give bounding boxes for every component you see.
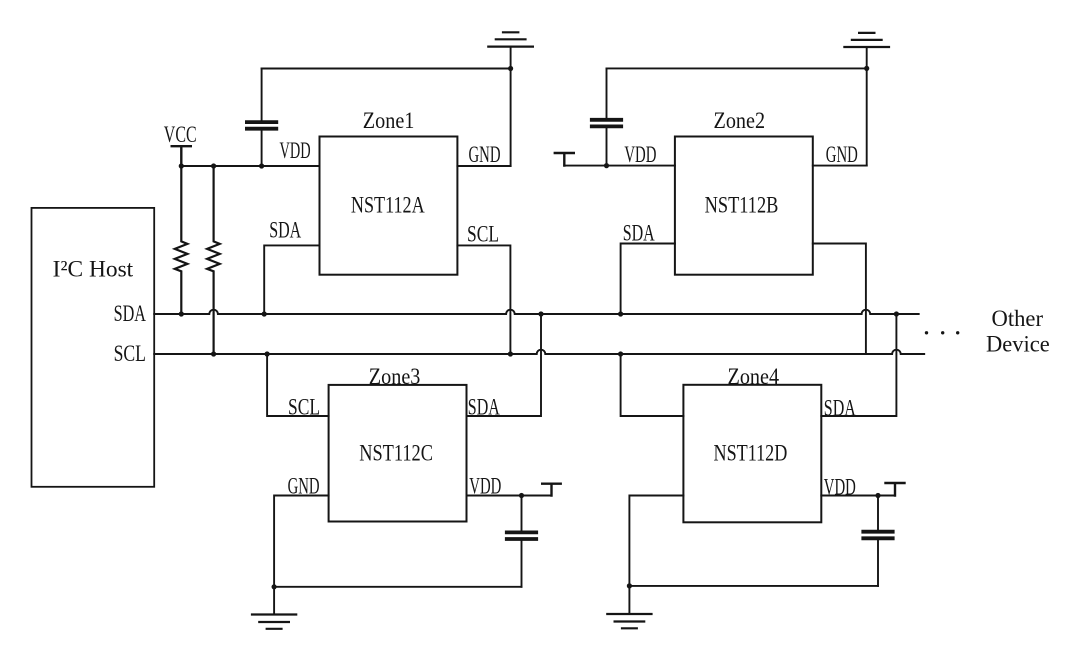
wire SCL pin Zone2 to bus	[813, 244, 866, 355]
svg-text:GND: GND	[469, 142, 501, 167]
wire G2 riser to GND pin	[866, 68, 868, 165]
wire SCL bus (hops at Zone3-SDA, Zone4-SDA crossings)	[154, 350, 924, 354]
svg-text:VCC: VCC	[164, 122, 197, 147]
svg-text:NST112A: NST112A	[351, 192, 425, 217]
resistor R1	[175, 166, 188, 314]
wire SDA pin Zone1 to bus	[264, 245, 319, 314]
wire GND pin Zone4 down	[629, 496, 683, 615]
wire GND pin Zone2	[813, 165, 867, 167]
chip U1 Zone1 box	[320, 137, 458, 275]
wire VDD pin Zone4	[821, 495, 895, 497]
node R2-SCL junction	[211, 351, 216, 356]
svg-text:SCL: SCL	[114, 341, 146, 366]
wire SCL pin Zone1 to bus	[457, 245, 510, 354]
wire bottom rail Zone4	[629, 585, 878, 587]
wire SCL pin Zone3 to bus	[267, 354, 329, 416]
node G2 rail junction	[864, 66, 869, 71]
svg-text:I²C Host: I²C Host	[53, 256, 134, 281]
node Zone4-SCL junction	[618, 351, 623, 356]
node Zone3-SCL junction	[265, 351, 270, 356]
capacitor C2	[592, 68, 621, 165]
svg-text:NST112C: NST112C	[359, 441, 433, 466]
node C1 bottom junction	[259, 163, 264, 168]
wire G1 riser to GND pin	[510, 69, 512, 167]
svg-text:SDA: SDA	[623, 221, 655, 246]
capacitor C4	[863, 496, 892, 586]
wire SCL pin Zone4 to bus	[621, 354, 684, 416]
ground G3 (bottom)	[252, 615, 296, 629]
node G1 rail junction	[508, 66, 513, 71]
svg-text:SDA: SDA	[269, 218, 301, 243]
ground G1 (top)	[488, 32, 533, 68]
wire SDA pin Zone2 to bus	[621, 244, 675, 315]
ellipsis dots	[925, 331, 928, 334]
svg-text:VDD: VDD	[280, 138, 311, 163]
svg-text:Zone1: Zone1	[363, 108, 415, 133]
wire VDD rail Zone1	[181, 165, 319, 167]
wire VDD pin Zone3	[467, 495, 552, 497]
wire top rail Zone1	[262, 68, 511, 70]
node VCC junction	[179, 163, 184, 168]
power bar P4 (Zone4 VDD)	[886, 483, 905, 496]
wire GND pin Zone1	[457, 165, 510, 167]
node R2 top junction	[211, 163, 216, 168]
node R1-SDA junction	[179, 311, 184, 316]
I2C Host box	[32, 208, 155, 487]
chip U4 Zone4 box	[683, 385, 821, 523]
svg-text:GND: GND	[826, 142, 858, 167]
capacitor C3	[507, 496, 536, 587]
svg-text:NST112B: NST112B	[705, 192, 779, 217]
wire top rail Zone2	[607, 67, 867, 69]
power bar P2 (Zone2 VDD)	[555, 153, 574, 166]
wire SDA pin Zone4 to bus	[821, 314, 896, 416]
ground G4 (bottom)	[607, 614, 651, 628]
wire SDA pin Zone3 to bus	[467, 314, 542, 416]
power VCC symbol	[172, 146, 191, 166]
node Zone2-SDA junction	[618, 311, 623, 316]
chip U2 Zone2 box	[675, 137, 813, 275]
node Zone3-SDA junction	[538, 311, 543, 316]
chip U3 Zone3 box	[329, 385, 467, 522]
node C4 top junction	[875, 493, 880, 498]
svg-text:Device: Device	[986, 332, 1050, 357]
resistor R2	[207, 166, 220, 354]
node C3 top junction	[519, 493, 524, 498]
svg-text:Other: Other	[992, 306, 1044, 331]
svg-text:SCL: SCL	[467, 222, 499, 247]
node Zone1-SDA junction	[262, 311, 267, 316]
wire GND pin Zone3 down	[274, 496, 329, 615]
svg-text:Zone2: Zone2	[714, 108, 766, 133]
svg-text:SDA: SDA	[114, 301, 147, 326]
svg-text:VDD: VDD	[624, 142, 656, 167]
node G3 junction	[272, 584, 277, 589]
node G4 junction	[627, 583, 632, 588]
capacitor C1	[247, 69, 276, 167]
svg-text:NST112D: NST112D	[714, 441, 788, 466]
ground G2 (top)	[844, 33, 889, 69]
svg-text:Zone3: Zone3	[369, 364, 421, 389]
wire VDD pin Zone2	[564, 165, 675, 167]
node Zone1-SCL junction	[508, 351, 513, 356]
svg-text:Zone4: Zone4	[728, 364, 780, 389]
wire SDA bus (hops at R2, Zone1-SCL, Zone2-SCL crossings)	[154, 310, 919, 314]
power bar P3 (Zone3 VDD)	[542, 484, 561, 496]
node C2 bottom junction	[604, 163, 609, 168]
node Zone4-SDA junction	[894, 311, 899, 316]
wire bottom rail Zone3	[274, 586, 521, 588]
